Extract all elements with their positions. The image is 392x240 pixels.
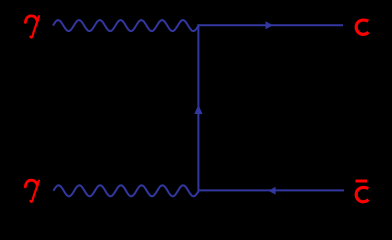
wire: vertical fermion propagator — [197, 24, 199, 190]
wire: top fermion line (c quark outgoing) — [198, 24, 344, 26]
label cbar quark — [356, 187, 368, 201]
arrow up on vertical propagator — [194, 105, 202, 114]
photon wavy line bottom (gamma 2) — [53, 185, 198, 196]
arrow right on top fermion line — [266, 21, 273, 29]
label c quark — [356, 20, 368, 34]
label gamma top (photon 1) — [25, 16, 39, 38]
label gamma bottom (photon 2) — [25, 180, 39, 202]
photon wavy line top (gamma 1) — [53, 20, 199, 31]
arrow left on bottom fermion line — [268, 187, 275, 195]
overline of cbar — [356, 180, 368, 183]
wire: bottom fermion line (cbar outgoing) — [198, 189, 345, 191]
